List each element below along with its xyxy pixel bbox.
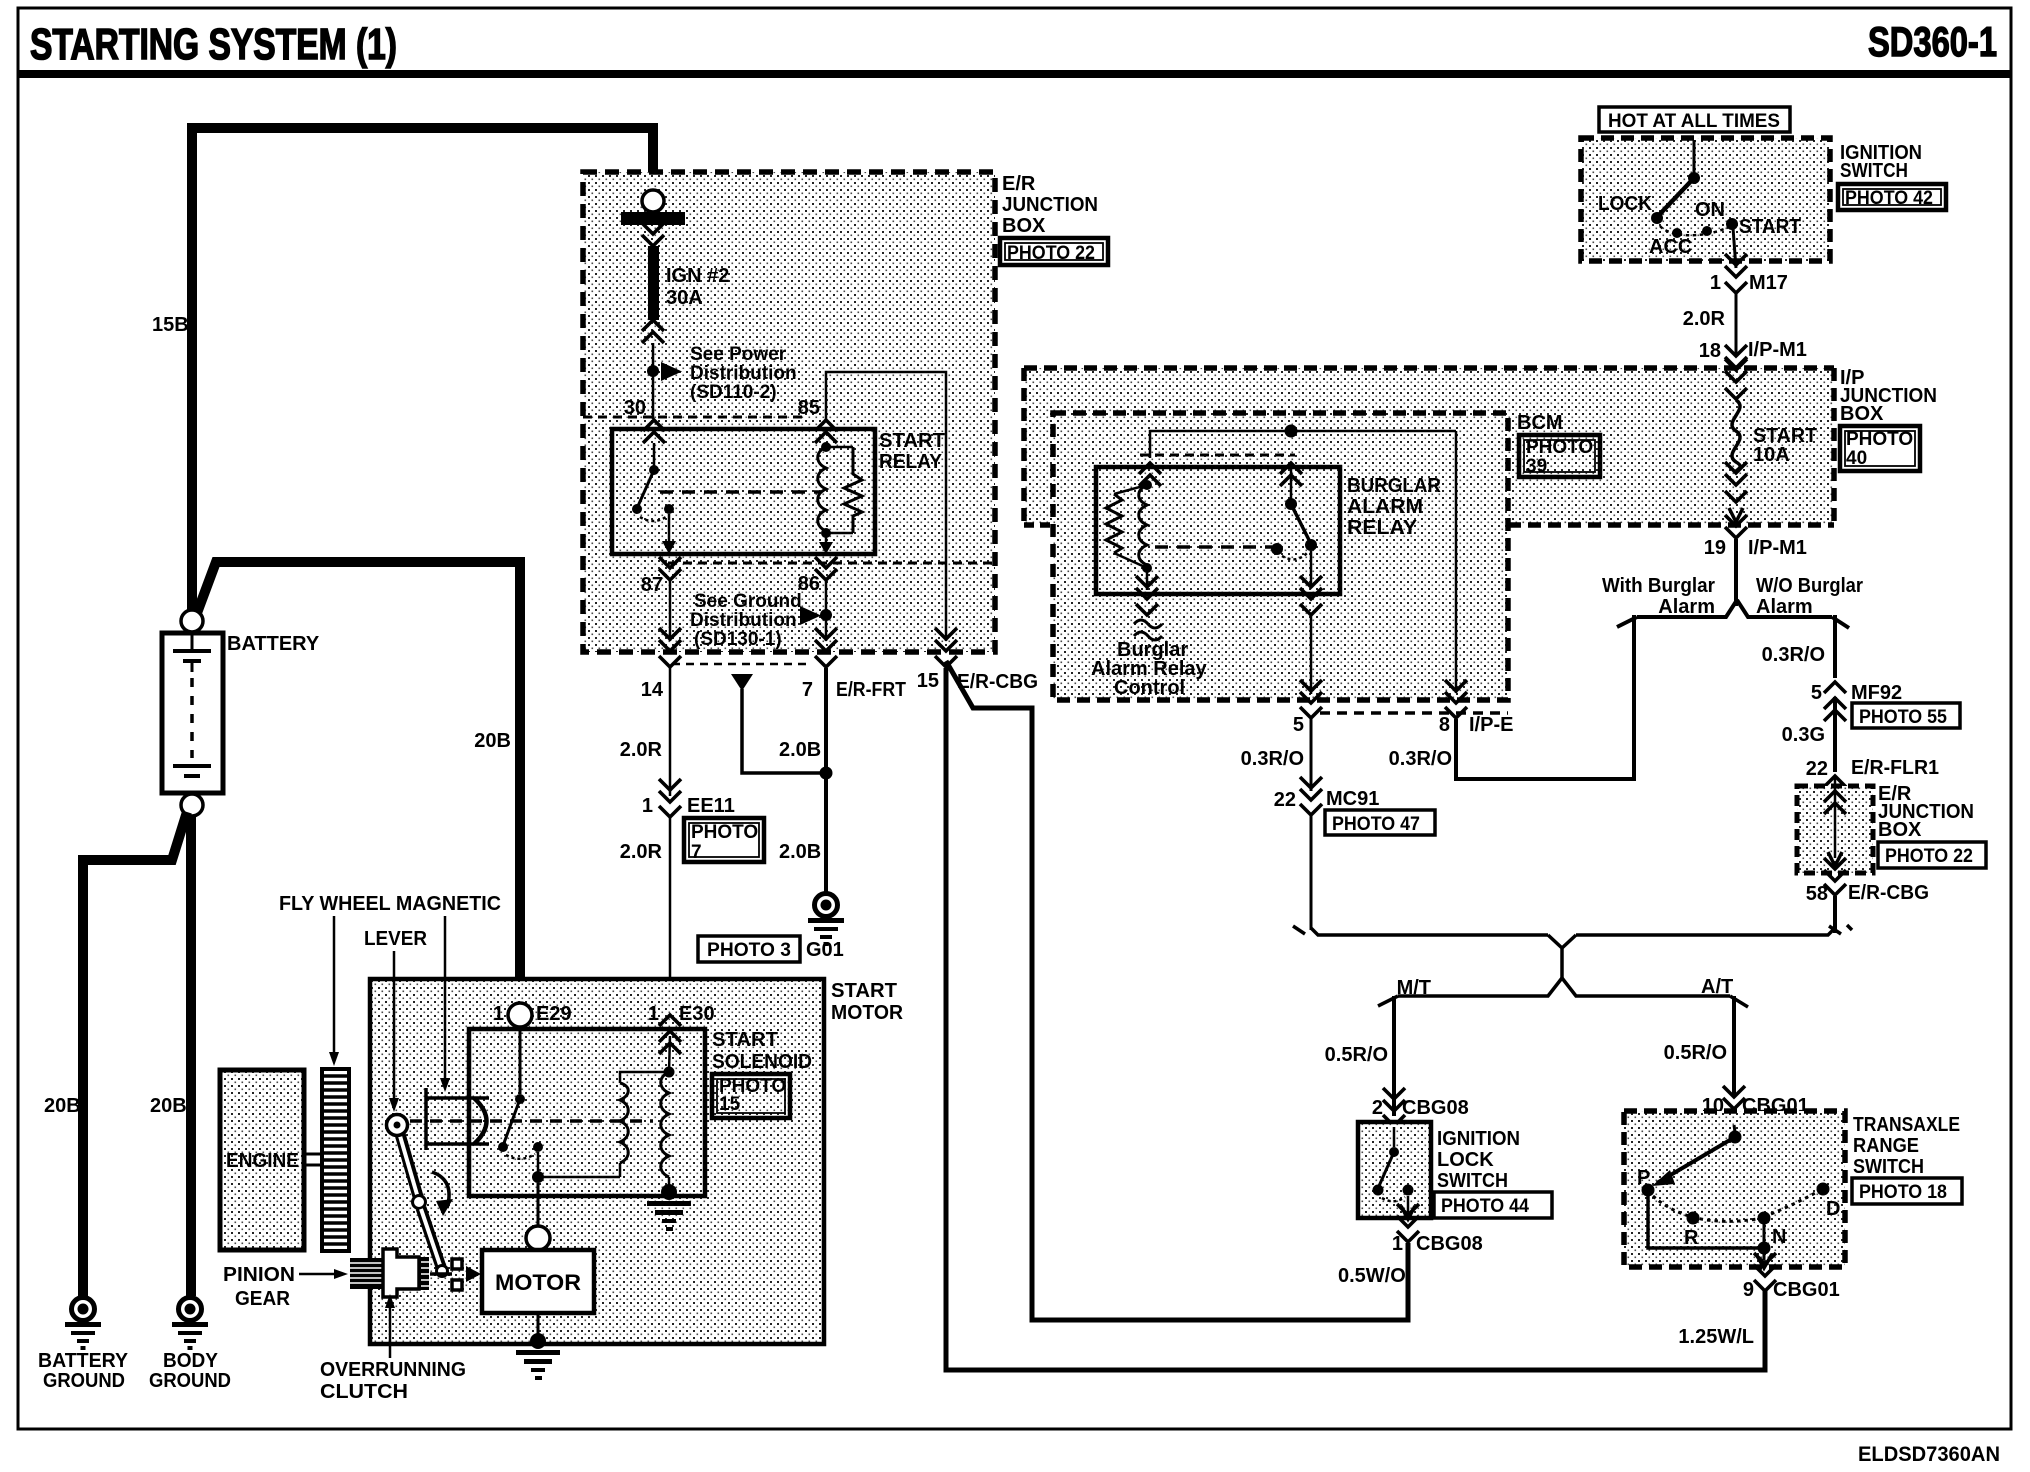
svg-text:STARTING SYSTEM (1): STARTING SYSTEM (1)	[30, 20, 397, 69]
wire solenoid contact to motor	[537, 1183, 540, 1227]
photo ref box PHOTO 47	[1325, 810, 1435, 835]
svg-text:See Ground: See Ground	[694, 591, 802, 612]
transaxle switch contacts	[1642, 1125, 1830, 1268]
connector CBG01 9 chevron	[1754, 1253, 1776, 1276]
junction dot see-ground-distribution	[820, 609, 832, 621]
relay feed wire and node	[1150, 431, 1456, 458]
svg-text:15: 15	[719, 1094, 741, 1115]
wire START contact to M17	[1733, 228, 1736, 268]
ground symbol (solenoid coil)	[647, 1201, 691, 1231]
svg-text:PHOTO 18: PHOTO 18	[1859, 1182, 1947, 1203]
svg-text:58: 58	[1806, 883, 1828, 905]
svg-text:IGN #2: IGN #2	[666, 265, 729, 287]
pin chevron 30	[643, 420, 665, 443]
svg-text:SWITCH: SWITCH	[1437, 1170, 1508, 1192]
connector CBG08 2 chevron	[1383, 1088, 1405, 1111]
connector E/R-FRT 7 chevron	[815, 628, 837, 651]
fuse START 10A	[1725, 359, 1747, 522]
wire BCM to I/P-E 8	[1455, 431, 1458, 693]
node circle at E/R box feed	[642, 190, 664, 212]
svg-text:BURGLAR: BURGLAR	[1347, 475, 1442, 497]
svg-text:GROUND: GROUND	[149, 1370, 231, 1392]
connector chevron below fuse	[642, 320, 664, 343]
svg-text:HOT AT ALL TIMES: HOT AT ALL TIMES	[1608, 111, 1780, 132]
I/P junction box right dashed edge	[1831, 368, 1837, 525]
svg-text:BATTERY: BATTERY	[227, 633, 320, 655]
svg-text:SD360-1: SD360-1	[1868, 18, 1997, 65]
svg-text:START: START	[879, 430, 945, 452]
svg-text:15: 15	[917, 670, 939, 692]
svg-text:LEVER: LEVER	[364, 928, 428, 950]
relay coil output chevron	[1136, 576, 1158, 599]
wire with-burglar branch (to I/P-E 8)	[1458, 615, 1634, 779]
HOT AT ALL TIMES box	[1599, 107, 1790, 132]
photo ref box PHOTO 3	[698, 936, 800, 962]
relay contact output chevron	[1300, 576, 1322, 599]
connector M17 pin1 chevron	[1725, 254, 1747, 277]
fuse bus bar	[621, 212, 685, 225]
svg-text:ACC: ACC	[1649, 236, 1692, 258]
svg-text:7: 7	[691, 842, 702, 863]
ignition lock switch box (shaded)	[1358, 1122, 1431, 1218]
svg-text:RANGE: RANGE	[1853, 1135, 1919, 1157]
start relay switch contact	[632, 443, 676, 554]
connector MC91 22 chevron	[1300, 777, 1322, 800]
wire MC91 down to merge bus	[1310, 816, 1313, 930]
ground symbol (motor)	[516, 1350, 560, 1380]
svg-text:E/R-CBG: E/R-CBG	[957, 671, 1038, 693]
wire relay85 to E/R-CBG 15 (thin rectangle path)	[826, 372, 946, 641]
svg-text:1: 1	[1710, 272, 1721, 294]
svg-text:PHOTO 44: PHOTO 44	[1441, 1196, 1529, 1217]
svg-text:ALARM: ALARM	[1347, 496, 1423, 518]
I/P junction box bottom dashed edge	[1508, 522, 1834, 528]
ground symbol body ground	[172, 1298, 208, 1351]
svg-text:CBG08: CBG08	[1402, 1097, 1469, 1119]
svg-text:GROUND: GROUND	[43, 1370, 125, 1392]
junction dot see-power-distribution	[647, 365, 659, 377]
arrow to ground distribution	[800, 606, 821, 625]
BCM box left dashed edge	[1021, 368, 1027, 525]
relay coil pin chevron (left)	[1139, 463, 1161, 486]
E/R junction box internal dashed line (upper)	[583, 416, 808, 419]
photo ref box PHOTO 18	[1852, 1178, 1962, 1204]
svg-text:EE11: EE11	[687, 795, 735, 817]
burglar relay armature dashed link	[1155, 545, 1272, 549]
BCM inner dashed box (burglar alarm relay region)	[1053, 413, 1508, 700]
wire pin86 down to E/R edge	[825, 581, 828, 641]
wire A/T branch 0.5R/O	[1732, 996, 1736, 1097]
svg-text:PHOTO 42: PHOTO 42	[1845, 188, 1933, 209]
leader to flywheel	[333, 916, 336, 1054]
photo ref box PHOTO 40	[1840, 426, 1920, 471]
connector E/R-FRT 14 chevron	[659, 628, 681, 651]
svg-text:M17: M17	[1749, 272, 1788, 294]
svg-text:2.0R: 2.0R	[620, 841, 663, 863]
wire w/o-burglar branch down to MF92	[1833, 615, 1837, 678]
svg-text:SOLENOID: SOLENOID	[712, 1051, 812, 1073]
connector I/P-M1 19 chevron	[1725, 515, 1747, 538]
pin 86 chevron below relay	[815, 557, 837, 580]
connector E30 chevron	[659, 1015, 681, 1026]
connector chevron below bus bar	[642, 223, 664, 246]
svg-text:30: 30	[624, 397, 646, 419]
photo ref box PHOTO 39	[1519, 435, 1600, 477]
squiggle to burglar alarm relay control	[1134, 620, 1162, 640]
svg-text:START: START	[1739, 216, 1801, 238]
svg-text:14: 14	[641, 679, 664, 701]
connector CBG08 1 chevron	[1397, 1204, 1419, 1227]
svg-text:Control: Control	[1114, 677, 1185, 699]
svg-text:2: 2	[1372, 1097, 1383, 1119]
motor M box	[482, 1250, 594, 1313]
svg-text:E/R-FRT: E/R-FRT	[836, 679, 906, 701]
svg-text:1: 1	[648, 1003, 659, 1025]
photo ref box PHOTO 55	[1852, 703, 1960, 728]
svg-text:A/T: A/T	[1701, 976, 1733, 998]
wire 20B battery to start motor E29	[197, 562, 520, 1004]
svg-text:M/T: M/T	[1397, 977, 1431, 999]
wire relay output to pin 5	[1310, 616, 1313, 694]
wire MC91: 0.3R/O from pin 5	[1310, 719, 1313, 791]
svg-text:GEAR: GEAR	[235, 1288, 291, 1310]
leader to lever	[393, 951, 396, 1100]
leader to magnetic pickup	[444, 916, 447, 1080]
start solenoid box	[469, 1029, 705, 1196]
wire 58 down to merge bus	[1833, 896, 1837, 933]
svg-text:ON: ON	[1695, 199, 1725, 221]
wire fuse to relay pin 30	[652, 343, 655, 419]
wire into ignition switch	[1693, 140, 1696, 173]
wire 0.3G	[1833, 697, 1837, 772]
ground symbol battery ground	[65, 1298, 101, 1351]
svg-text:19: 19	[1704, 537, 1726, 559]
svg-text:E/R-CBG: E/R-CBG	[1848, 882, 1929, 904]
E/R junction box (dashed, shaded)	[583, 172, 995, 652]
arrow to power distribution	[661, 362, 682, 381]
photo ref box PHOTO 15	[712, 1074, 790, 1118]
flywheel ring gear	[322, 1069, 349, 1251]
svg-text:Alarm: Alarm	[1658, 596, 1715, 618]
svg-text:Distribution: Distribution	[690, 610, 797, 631]
svg-text:PINION: PINION	[223, 1264, 295, 1286]
svg-text:N: N	[1772, 1226, 1786, 1248]
svg-text:22: 22	[1274, 789, 1296, 811]
svg-text:SWITCH: SWITCH	[1840, 160, 1908, 182]
connector E/R-CBG 15 chevron	[935, 628, 957, 651]
svg-text:E29: E29	[536, 1003, 572, 1025]
burglar alarm relay K2 box	[1096, 467, 1340, 594]
transaxle range switch box (dashed shaded)	[1624, 1111, 1845, 1267]
connector I/P-M1 18 chevron	[1725, 345, 1747, 368]
svg-text:1: 1	[642, 795, 653, 817]
BCM and I/P box top dashed edge	[1024, 365, 1834, 371]
svg-text:With Burglar: With Burglar	[1602, 575, 1715, 597]
svg-text:0.3R/O: 0.3R/O	[1762, 644, 1825, 666]
svg-text:P: P	[1637, 1167, 1650, 1189]
svg-text:2.0R: 2.0R	[1683, 308, 1726, 330]
overrunning clutch assembly	[383, 1249, 462, 1297]
start motor M1 outer box (shaded)	[370, 979, 824, 1344]
svg-text:39: 39	[1526, 456, 1547, 477]
svg-text:(SD130-1): (SD130-1)	[694, 629, 782, 650]
svg-text:LOCK: LOCK	[1437, 1149, 1494, 1171]
wire 15B battery positive feed (vertical + top horizontal to E/R box)	[192, 128, 653, 610]
svg-text:30A: 30A	[666, 287, 703, 309]
E/R junction box internal dashed line (lower)	[668, 562, 995, 565]
svg-text:PHOTO: PHOTO	[1846, 429, 1913, 450]
svg-text:E/R-FLR1: E/R-FLR1	[1851, 757, 1939, 779]
svg-text:MC91: MC91	[1326, 788, 1379, 810]
svg-text:5: 5	[1293, 714, 1304, 736]
svg-text:5: 5	[1811, 682, 1822, 704]
svg-text:ENGINE: ENGINE	[226, 1150, 299, 1172]
svg-text:PHOTO 22: PHOTO 22	[1007, 243, 1095, 264]
svg-text:JUNCTION: JUNCTION	[1002, 194, 1098, 216]
svg-text:START: START	[831, 980, 897, 1002]
svg-text:0.5R/O: 0.5R/O	[1325, 1044, 1388, 1066]
wire battery negative to battery ground	[83, 812, 187, 860]
lock switch contacts	[1373, 1127, 1416, 1219]
connector EE11 pin1 chevron	[659, 779, 681, 802]
svg-text:7: 7	[802, 679, 813, 701]
start relay armature dashed link	[660, 490, 820, 494]
svg-text:W/O Burglar: W/O Burglar	[1756, 575, 1863, 597]
svg-text:20B: 20B	[44, 1095, 81, 1117]
svg-text:I/P-M1: I/P-M1	[1748, 339, 1807, 361]
photo ref box PHOTO 42	[1838, 184, 1946, 210]
svg-text:BATTERY: BATTERY	[38, 1350, 129, 1372]
svg-text:2.0R: 2.0R	[620, 739, 663, 761]
svg-text:2.0B: 2.0B	[779, 841, 821, 863]
svg-text:E/R: E/R	[1002, 173, 1036, 195]
relay U1 START RELAY box	[612, 429, 875, 554]
ENGINE box	[220, 1070, 304, 1250]
lever arm	[387, 1115, 448, 1277]
svg-text:Distribution: Distribution	[690, 363, 797, 384]
svg-text:TRANSAXLE: TRANSAXLE	[1853, 1114, 1960, 1136]
svg-text:MOTOR: MOTOR	[831, 1002, 904, 1024]
svg-text:R: R	[1684, 1227, 1699, 1249]
solenoid switch contact	[498, 1027, 544, 1183]
svg-text:RELAY: RELAY	[1347, 517, 1418, 539]
photo ref box PHOTO 22 (right)	[1878, 842, 1986, 868]
svg-text:BODY: BODY	[163, 1350, 219, 1372]
battery BATTERY	[162, 610, 223, 816]
svg-text:1: 1	[493, 1003, 504, 1025]
title separator bar	[18, 70, 2011, 78]
svg-text:18: 18	[1699, 340, 1721, 362]
svg-text:CLUTCH: CLUTCH	[320, 1381, 408, 1403]
leader overrunning clutch	[389, 1306, 392, 1358]
svg-text:15B: 15B	[152, 314, 189, 336]
alarm-option split symbol	[1617, 600, 1849, 628]
svg-text:0.3R/O: 0.3R/O	[1389, 748, 1452, 770]
svg-text:SWITCH: SWITCH	[1853, 1156, 1924, 1178]
svg-text:ELDSD7360AN: ELDSD7360AN	[1858, 1443, 2000, 1466]
junction dot motor ground	[530, 1333, 546, 1349]
svg-text:IGNITION: IGNITION	[1437, 1128, 1520, 1150]
svg-text:9: 9	[1743, 1279, 1754, 1301]
svg-text:PHOTO 22: PHOTO 22	[1885, 846, 1973, 867]
wire 2.0B (pin7 to G01)	[824, 668, 828, 893]
connector CBG01 10 chevron	[1723, 1086, 1745, 1109]
svg-text:PHOTO: PHOTO	[691, 822, 758, 843]
lever motion curved arrow	[432, 1172, 449, 1208]
svg-text:0.5R/O: 0.5R/O	[1664, 1042, 1727, 1064]
connector E/R-CBG 58 chevron	[1824, 858, 1846, 881]
svg-text:0.3R/O: 0.3R/O	[1241, 748, 1304, 770]
svg-text:8: 8	[1439, 714, 1450, 736]
svg-text:87: 87	[641, 574, 663, 596]
svg-text:I/P-E: I/P-E	[1469, 714, 1513, 736]
svg-text:20B: 20B	[150, 1095, 187, 1117]
svg-text:See Power: See Power	[690, 344, 787, 365]
svg-text:LOCK: LOCK	[1598, 193, 1653, 215]
connector MF92 pin 5 chevron	[1824, 682, 1846, 693]
svg-text:85: 85	[798, 397, 820, 419]
relay switch (burglar)	[1271, 462, 1317, 588]
svg-text:I/P-M1: I/P-M1	[1748, 537, 1807, 559]
engine shaft	[304, 1153, 322, 1156]
wire I/P-E 8 drop	[1454, 719, 1458, 781]
svg-text:10A: 10A	[1753, 444, 1790, 466]
pin 87 chevron below relay	[659, 557, 681, 580]
svg-text:BCM: BCM	[1517, 412, 1563, 434]
E/R junction box (small, dashed shaded)	[1797, 786, 1873, 873]
wire through small E/R box	[1834, 775, 1837, 858]
svg-text:22: 22	[1806, 758, 1828, 780]
wire 2.0R EE11 to E30	[669, 818, 672, 1020]
svg-text:FLY WHEEL MAGNETIC: FLY WHEEL MAGNETIC	[279, 893, 501, 915]
BCM box bottom stub	[1024, 522, 1053, 528]
svg-text:40: 40	[1846, 448, 1867, 469]
svg-text:CBG08: CBG08	[1416, 1233, 1483, 1255]
solenoid pull-in / hold-in coils	[538, 1036, 677, 1200]
svg-text:Alarm: Alarm	[1756, 596, 1813, 618]
fuse IGN #2 30A (element)	[648, 246, 659, 320]
connector boundary dashed (E/R-FRT)	[672, 663, 810, 666]
terminal E29 circle	[508, 1003, 532, 1027]
svg-text:RELAY: RELAY	[879, 451, 943, 473]
svg-text:0.3G: 0.3G	[1782, 724, 1825, 746]
merge bus (M/T-A/T)	[1293, 925, 1852, 1007]
svg-text:1.25W/L: 1.25W/L	[1678, 1326, 1754, 1348]
photo ref box PHOTO 22 (E/R)	[1000, 238, 1108, 265]
wire 2.0R M17 to I/P-M1	[1735, 294, 1738, 357]
wire 19 I/P-M1 down to split	[1734, 539, 1738, 606]
svg-text:PHOTO 3: PHOTO 3	[707, 940, 791, 961]
svg-text:PHOTO 47: PHOTO 47	[1332, 814, 1420, 835]
magnetic pickup bracket	[426, 1088, 489, 1150]
wire pin87 down to E/R edge	[669, 581, 672, 641]
relay contact pin chevron (right)	[1280, 463, 1302, 486]
connector pin 5 chevron	[1300, 680, 1322, 703]
solenoid plunger axis dashed line	[410, 1119, 653, 1123]
pinion gear (striped block)	[350, 1258, 382, 1289]
wire E/R-CBG 15 to transaxle (1.25W/L bus)	[946, 668, 1765, 1370]
ignition switch SW1 box (dashed, shaded)	[1581, 138, 1830, 261]
svg-text:2.0B: 2.0B	[779, 739, 821, 761]
svg-text:PHOTO: PHOTO	[1526, 437, 1593, 458]
wire motor to ground	[537, 1313, 540, 1338]
BCM / I/P junction box shaded region	[1024, 368, 1834, 525]
svg-text:(SD110-2): (SD110-2)	[690, 382, 777, 403]
motion arrow into motor	[466, 1266, 481, 1282]
start relay coil with parallel resistor	[818, 442, 862, 554]
svg-text:D: D	[1826, 1198, 1840, 1220]
feed triangle into 2.0B net	[731, 674, 753, 691]
junction dot on 2.0B	[820, 767, 833, 780]
svg-text:MF92: MF92	[1851, 682, 1902, 704]
svg-text:BOX: BOX	[1002, 215, 1046, 237]
wire M/T branch 0.5R/O	[1392, 996, 1396, 1116]
svg-text:OVERRUNNING: OVERRUNNING	[320, 1359, 466, 1381]
svg-text:START: START	[712, 1029, 778, 1051]
connector I/P-E pin 8 chevron	[1445, 680, 1467, 703]
svg-text:PHOTO 55: PHOTO 55	[1859, 707, 1947, 728]
svg-text:0.5W/O: 0.5W/O	[1338, 1265, 1406, 1287]
I/P-E connector dashed boundary	[1320, 711, 1508, 715]
leader pinion gear	[299, 1273, 336, 1276]
svg-text:BOX: BOX	[1878, 819, 1922, 841]
motor terminal circle	[526, 1226, 550, 1250]
connector E/R-FLR1 22 chevron	[1824, 776, 1846, 799]
svg-text:E30: E30	[679, 1003, 715, 1025]
pin chevron 85	[815, 420, 837, 443]
wire 2.0R (pin14 to EE11)	[669, 668, 672, 796]
burglar relay coil with parallel resistor	[1106, 480, 1152, 590]
photo ref box PHOTO 7	[684, 818, 764, 862]
svg-text:BOX: BOX	[1840, 403, 1884, 425]
svg-text:20B: 20B	[474, 730, 511, 752]
ground G01	[808, 894, 844, 947]
svg-text:1: 1	[1392, 1233, 1403, 1255]
svg-text:MOTOR: MOTOR	[495, 1270, 581, 1295]
wire battery negative to body ground	[186, 816, 196, 1296]
photo ref box PHOTO 44	[1434, 1192, 1552, 1218]
internal dashed line above relay	[1140, 454, 1295, 457]
svg-text:G01: G01	[806, 939, 844, 961]
svg-text:CBG01: CBG01	[1773, 1279, 1840, 1301]
wire 0.5W/O to E/R-CBG 15	[946, 661, 1408, 1320]
ignition switch contacts	[1651, 172, 1738, 238]
